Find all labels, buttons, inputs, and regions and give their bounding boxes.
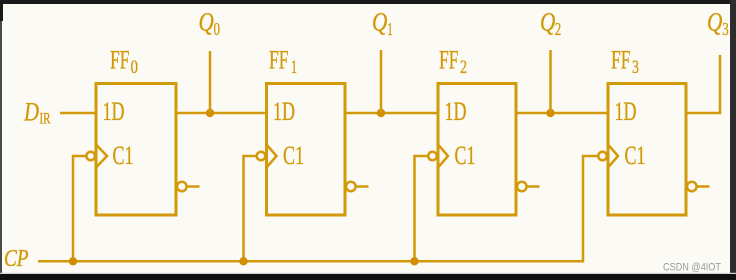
svg-text:2: 2 [555,19,562,39]
svg-text:1: 1 [387,19,393,39]
svg-text:CP: CP [4,246,29,272]
svg-text:C1: C1 [113,140,134,170]
wire FF3.Q output to Q3 [686,55,720,113]
svg-text:FF: FF [269,45,289,74]
wire FF2 inverted output stub [527,185,540,188]
frame right bar [730,0,736,280]
wire CP bus [38,260,583,263]
clock inversion bubble FF0 [86,152,95,161]
svg-text:1D: 1D [273,97,295,126]
wire CP riser to FF0 clock [73,156,86,261]
junction CP-FF0 [69,257,77,265]
svg-text:2: 2 [460,57,467,78]
svg-text:CSDN @4IOT: CSDN @4IOT [663,262,721,274]
wire FF0 inverted output stub [187,185,200,188]
svg-text:FF: FF [110,45,130,74]
svg-text:Q: Q [540,8,555,37]
svg-text:Q: Q [199,8,214,37]
junction CP-FF1 [239,257,247,265]
dynamic input chevron FF2 [438,145,448,168]
flip-flop FF2 box [438,84,516,216]
frame bottom light line [0,273,736,274]
svg-text:IR: IR [40,111,51,128]
svg-text:D: D [23,98,39,127]
clock inversion bubble FF2 [428,152,437,161]
dynamic input chevron FF3 [608,145,618,168]
wire FF1.Q to FF2.1D [345,112,438,115]
frame top bar [0,0,736,4]
svg-text:1D: 1D [615,97,637,126]
svg-text:FF: FF [611,45,631,74]
junction CP-FF2 [410,257,418,265]
flip-flop FF0 box [96,84,176,216]
inverted output bubble FF1 [346,182,356,192]
frame left corner piece [0,0,3,21]
clock inversion bubble FF1 [257,152,266,161]
flip-flop FF1 box [267,84,346,216]
wire CP riser to FF3 clock [583,156,598,263]
junction node Q0 [206,109,214,117]
junction node Q1 [377,109,385,117]
frame bottom bar [0,274,736,280]
inverted output bubble FF3 [687,182,697,192]
clock inversion bubble FF3 [598,152,607,161]
svg-text:0: 0 [131,57,139,78]
inverted output bubble FF2 [517,182,527,192]
dynamic input chevron FF0 [96,145,107,168]
flip-flop FF3 box [608,84,686,216]
wire FF2.Q to FF3.1D [516,112,608,115]
svg-text:C1: C1 [455,140,476,170]
svg-text:1: 1 [291,57,297,78]
svg-text:C1: C1 [625,140,646,170]
svg-text:3: 3 [722,19,729,39]
svg-text:Q: Q [372,8,387,37]
svg-text:0: 0 [214,19,221,39]
wire FF0.Q to FF1.1D [176,112,267,115]
svg-text:Q: Q [707,8,722,37]
svg-text:1D: 1D [103,97,125,126]
wire FF3 inverted output stub [697,185,710,188]
svg-text:C1: C1 [283,140,304,170]
dynamic input chevron FF1 [267,145,277,168]
junction node Q2 [546,109,554,117]
wire DIR input to FF0 [60,112,96,115]
svg-text:FF: FF [439,45,459,74]
wire Q1 riser [380,50,383,113]
wire CP riser to FF2 clock [415,156,429,261]
wire Q0 riser [209,51,212,113]
wire FF1 inverted output stub [356,185,369,188]
svg-text:1D: 1D [445,97,467,126]
inverted output bubble FF0 [177,182,187,192]
frame left edge [0,0,2,280]
svg-text:3: 3 [632,57,639,78]
wire CP riser to FF1 clock [244,156,257,261]
wire Q2 riser [549,50,552,113]
